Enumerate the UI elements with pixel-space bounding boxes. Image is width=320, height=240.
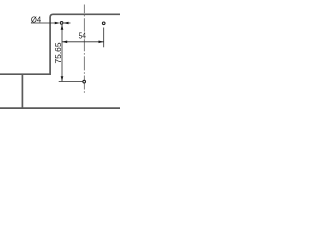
label 54 (with mask over centerline) <box>78 32 87 40</box>
arrow left of hole A <box>55 22 60 25</box>
svg-text:Ø4: Ø4 <box>31 15 42 24</box>
extension line below hole B <box>103 28 105 48</box>
arrow 75.65 top <box>61 25 64 30</box>
arrow 54 right <box>99 41 104 44</box>
wire: bottom edge <box>0 107 121 109</box>
dimension 75.65 line <box>61 25 63 82</box>
dimension Ø4 leader <box>31 22 71 24</box>
arrow right of hole A <box>63 22 68 25</box>
hole B (103.7,23.3) <box>102 22 105 25</box>
svg-text:75.65: 75.65 <box>54 42 63 63</box>
extension line to hole C <box>59 81 83 83</box>
svg-text:54: 54 <box>79 32 87 41</box>
wire: step vertical edge <box>21 74 23 108</box>
hole C (84,81.6) <box>83 80 86 83</box>
hole A (61.6,22.9) <box>60 22 63 25</box>
part outline: top plate with rounded corner and left step ledge <box>0 14 121 74</box>
dimension 54 line <box>62 41 104 43</box>
centerline (dash-dot) at x=84 <box>83 5 85 94</box>
arrow 75.65 bottom <box>61 76 64 81</box>
arrow 54 left <box>62 41 67 44</box>
